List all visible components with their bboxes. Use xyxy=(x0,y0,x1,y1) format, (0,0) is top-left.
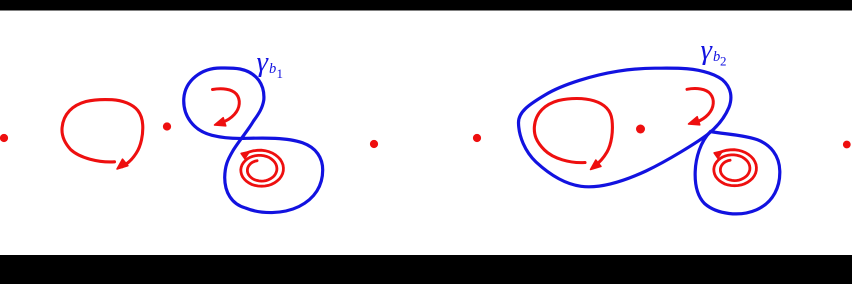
arrowhead of arc a1 xyxy=(215,118,226,126)
label gamma_b1 xyxy=(257,46,284,81)
label gamma_b2 xyxy=(701,34,727,69)
red arc a2 inside oval right xyxy=(687,89,713,122)
red loop L1 around left region xyxy=(62,100,143,167)
red spiral s1 inside lower lobe xyxy=(241,150,284,186)
node x5 (red dot inside oval) xyxy=(636,125,645,134)
node x2 (red dot) xyxy=(163,122,171,130)
blue contour gamma_b2 (big oval) xyxy=(518,68,730,187)
svg-text:γ: γ xyxy=(701,34,714,66)
red loop L2 inside oval xyxy=(534,99,612,167)
node x4 (red dot) xyxy=(473,134,481,142)
arrowhead of loop L1 xyxy=(117,159,128,169)
red arc a1 inside upper lobe xyxy=(213,89,240,122)
node x3 (red dot) xyxy=(370,140,378,148)
node x6 (right edge red dot) xyxy=(843,141,851,149)
arrowhead of spiral s2 xyxy=(714,151,722,158)
red spiral s2 xyxy=(714,150,757,186)
svg-text:γ: γ xyxy=(257,46,270,78)
svg-text:1: 1 xyxy=(277,66,284,81)
blue contour gamma_b1 (figure-eight) xyxy=(184,68,323,213)
arrowhead of loop L2 xyxy=(591,160,602,170)
top cropped text bar xyxy=(0,0,852,11)
bottom cropped text bar xyxy=(0,255,852,284)
node x1 (left edge red dot) xyxy=(0,134,8,142)
arrowhead of arc a2 xyxy=(689,117,700,125)
arrowhead of spiral s1 xyxy=(241,152,249,159)
svg-text:b: b xyxy=(269,61,276,77)
svg-text:2: 2 xyxy=(720,54,727,69)
blue loop around x6 (second lobe of gamma_b2) xyxy=(695,132,780,214)
